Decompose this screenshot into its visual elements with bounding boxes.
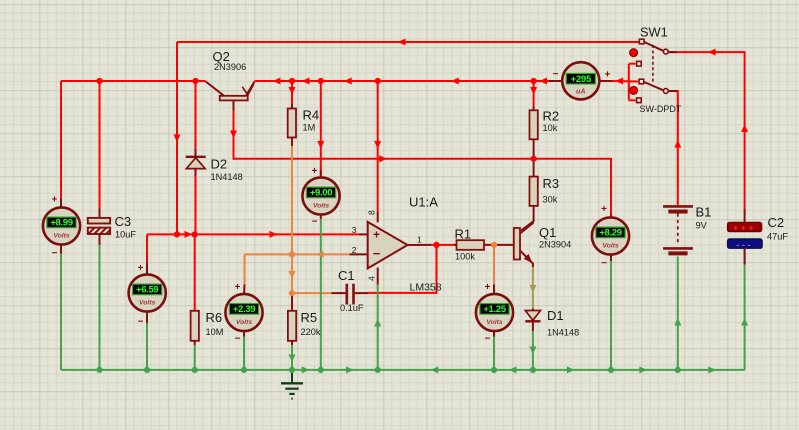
- svg-text:−: −: [373, 246, 381, 261]
- wire green battery B1 - to ground rail: [677, 257, 679, 370]
- svg-text:1M: 1M: [303, 123, 316, 133]
- junction ground rail / ground stub: [289, 367, 295, 373]
- resistor R1 100k: [454, 240, 514, 250]
- wire voltmeter +9.00 from rail: [320, 81, 322, 179]
- wire top net from node A to switch SW1 pole: [177, 41, 639, 43]
- voltmeter +2.39 leads and polarity: [235, 282, 245, 345]
- svg-text:1: 1: [417, 235, 422, 245]
- svg-text:+: +: [373, 228, 380, 242]
- wire 9V rail left segment: [61, 80, 206, 82]
- junction ground rail / voltmeter +1.25: [491, 367, 497, 373]
- wire green voltmeter +9.00 - to ground rail: [320, 219, 322, 370]
- voltmeter +1.25: [476, 294, 513, 331]
- wire pin3 net horizontal: [147, 233, 359, 235]
- voltmeter +9.00 leads and polarity: [312, 166, 321, 228]
- junction 9V rail / D2 branch: [192, 78, 198, 84]
- svg-text:2N3904: 2N3904: [539, 240, 571, 250]
- wire switch pole B down to battery B1 +: [669, 91, 678, 205]
- svg-text:Volts: Volts: [313, 202, 330, 209]
- wire ground rail: [61, 369, 745, 371]
- voltmeter +2.39: [225, 294, 262, 331]
- junction 9V rail / R4 branch: [289, 78, 295, 84]
- wire D2 cathode up to 9V rail: [195, 81, 197, 149]
- junction ground rail / R6: [192, 367, 198, 373]
- svg-text:C2: C2: [768, 215, 785, 230]
- wire green C3 - to ground rail: [99, 245, 101, 370]
- wire green voltmeter +8.99 - to ground rail: [60, 254, 62, 370]
- svg-text:0.1uF: 0.1uF: [340, 303, 364, 313]
- wire green D1 cathode to ground rail: [532, 331, 534, 370]
- svg-text:2N3906: 2N3906: [214, 62, 246, 72]
- svg-text:100k: 100k: [455, 251, 475, 261]
- ground symbol: [281, 370, 303, 399]
- svg-text:8: 8: [367, 210, 377, 215]
- svg-text:+: +: [601, 204, 607, 215]
- switch state indicator dot upper: [630, 49, 638, 57]
- svg-text:4: 4: [367, 276, 377, 281]
- wire D2 anode down to pin3 net: [195, 176, 197, 234]
- svg-text:+: +: [605, 70, 611, 81]
- svg-text:B1: B1: [696, 205, 712, 220]
- voltmeter +8.99 leads and polarity: [52, 195, 61, 260]
- svg-text:−: −: [235, 334, 241, 345]
- wire R4 top lead from rail: [291, 81, 293, 104]
- svg-text:C1: C1: [338, 268, 355, 283]
- junction ground rail / op-amp pin4: [375, 367, 381, 373]
- junction op-amp output / feedback: [433, 242, 439, 248]
- voltmeter +6.59: [129, 274, 166, 311]
- svg-text:10k: 10k: [543, 123, 558, 133]
- wire green R5 bottom to ground rail: [291, 345, 293, 370]
- wire green voltmeter +6.59 - to ground rail: [146, 323, 148, 370]
- ammeter +295 uA: [562, 62, 599, 99]
- voltmeter +8.99: [43, 207, 80, 244]
- transistor Q1 2N3904 NPN: [514, 223, 534, 268]
- svg-text:Q1: Q1: [539, 225, 556, 240]
- svg-text:−: −: [52, 248, 58, 259]
- junction ground rail / voltmeter +6.59: [144, 367, 150, 373]
- svg-text:−: −: [312, 217, 318, 228]
- wire vertical from top net down to pin3 net (node A): [176, 42, 178, 234]
- svg-text:SW1: SW1: [640, 25, 668, 40]
- wire green voltmeter +2.39 - to ground rail: [243, 337, 245, 370]
- svg-text:+1.25: +1.25: [483, 304, 506, 315]
- svg-text:10uF: 10uF: [115, 230, 136, 240]
- junction 9V rail / R2 branch: [531, 78, 537, 84]
- capacitor C2 47uF electrolytic: [728, 209, 763, 265]
- svg-text:+6.59: +6.59: [136, 285, 158, 296]
- junction ground rail / C3: [96, 367, 102, 373]
- wire left branch down to voltmeter +8.99: [60, 81, 62, 199]
- svg-text:+: +: [52, 195, 58, 206]
- junction ground rail / voltmeter +8.29: [608, 367, 614, 373]
- svg-text:uA: uA: [576, 89, 585, 96]
- junction 9V rail / C3 branch: [96, 78, 102, 84]
- wire pin3 net corner down to voltmeter +6.59: [146, 234, 148, 262]
- wire green op-amp pin4 to ground rail: [377, 285, 379, 370]
- junction R1 output / voltmeter +1.25 branch: [491, 242, 497, 248]
- svg-text:−: −: [138, 317, 144, 328]
- junction ground rail / voltmeter +9.00: [318, 367, 324, 373]
- resistor R6 10M: [191, 234, 199, 345]
- switch state indicator dot lower: [630, 87, 638, 95]
- op-amp U1:A LM358: [350, 212, 432, 285]
- svg-text:2: 2: [352, 245, 357, 255]
- svg-text:Volts: Volts: [139, 299, 156, 306]
- current arrow olive net: [529, 285, 536, 293]
- voltmeter +9.00: [302, 177, 339, 214]
- svg-text:R4: R4: [303, 108, 320, 123]
- wire orange R1 right down to voltmeter +1.25: [493, 245, 495, 285]
- svg-text:C3: C3: [115, 214, 132, 229]
- wire green C2 - to ground rail: [744, 249, 746, 370]
- svg-text:R2: R2: [543, 108, 560, 123]
- svg-text:9V: 9V: [696, 221, 708, 231]
- wire green voltmeter +1.25 - to ground rail: [493, 337, 495, 370]
- svg-text:D1: D1: [547, 308, 564, 323]
- svg-text:1N4148: 1N4148: [547, 328, 579, 338]
- junction pin3 net / R6-D2 branch: [192, 231, 198, 237]
- junction R2-R3 node / Q2 base net: [531, 156, 537, 162]
- junction ground rail / battery B1: [675, 367, 681, 373]
- svg-text:R5: R5: [301, 310, 318, 325]
- current arrows red nets: [398, 39, 406, 46]
- svg-text:+2.39: +2.39: [233, 304, 255, 315]
- switch SW1 SW-DPDT: [629, 39, 677, 102]
- svg-text:Volts: Volts: [236, 319, 253, 326]
- transistor Q2 2N3906 PNP: [206, 82, 255, 111]
- wire 9V rail right of Q2 emitter to ammeter: [255, 80, 550, 82]
- voltmeter +6.59 leads and polarity: [138, 263, 147, 328]
- diode D1 1N4148: [525, 309, 540, 332]
- svg-text:Volts: Volts: [486, 319, 503, 326]
- svg-text:+9.00: +9.00: [310, 188, 332, 199]
- battery B1 9V: [663, 206, 693, 253]
- svg-text:1N4148: 1N4148: [211, 172, 243, 182]
- wire Q2 base down and across to R2/R3 node: [234, 111, 612, 215]
- resistor R2 10k: [530, 106, 538, 159]
- wire olive Q1 emitter to D1: [532, 266, 534, 309]
- junction ground rail / voltmeter +2.39: [241, 367, 247, 373]
- wire switch pole A to right vertical down to C2: [669, 52, 745, 209]
- current arrows orange net: [316, 251, 324, 258]
- wire feedback from output down to C1 right plate: [368, 245, 437, 293]
- svg-text:R3: R3: [543, 176, 560, 191]
- svg-text:+8.29: +8.29: [599, 228, 621, 239]
- wire orange net to op-amp pin2: [245, 253, 350, 255]
- svg-text:+: +: [485, 282, 491, 293]
- svg-text:10M: 10M: [206, 327, 224, 337]
- wire orange to C1 left plate: [292, 292, 332, 294]
- svg-text:+: +: [312, 166, 318, 177]
- junction orange net / C1 wire: [289, 290, 295, 296]
- junction 9V rail / op-amp pin8 branch: [375, 78, 381, 84]
- wire green voltmeter +8.29 - to ground rail: [610, 261, 612, 370]
- resistor R4 1M: [288, 104, 296, 146]
- svg-text:+295: +295: [571, 74, 592, 85]
- resistor R3 30k: [521, 159, 538, 231]
- wire orange net R4 bottom vertical: [291, 146, 293, 293]
- wire green R6 bottom to ground rail: [194, 345, 196, 370]
- junction node A pin3 net / top wire: [174, 231, 180, 237]
- svg-text:R1: R1: [455, 226, 472, 241]
- capacitor C1 0.1uF: [332, 284, 369, 305]
- svg-text:30k: 30k: [543, 195, 558, 205]
- svg-text:+++: +++: [733, 222, 756, 232]
- svg-text:SW-DPDT: SW-DPDT: [640, 104, 682, 114]
- svg-text:47uF: 47uF: [767, 232, 788, 242]
- current arrows ground rail: [302, 366, 310, 373]
- voltmeter +8.29: [592, 217, 629, 254]
- junction 9V rail / voltmeter +9.00 branch: [318, 78, 324, 84]
- svg-text:3: 3: [352, 225, 357, 235]
- ammeter leads and polarity: [549, 69, 612, 81]
- wire R2 top from rail junction: [533, 81, 535, 106]
- wire op-amp output to R1: [431, 244, 454, 246]
- svg-text:+8.99: +8.99: [50, 218, 72, 229]
- svg-text:Volts: Volts: [53, 232, 70, 239]
- svg-text:LM358: LM358: [410, 282, 442, 294]
- svg-text:Volts: Volts: [602, 242, 619, 249]
- wire branch down to capacitor C3: [99, 81, 101, 209]
- voltmeter +1.25 leads and polarity: [485, 282, 494, 345]
- svg-text:+: +: [138, 263, 144, 274]
- svg-text:+: +: [235, 282, 241, 293]
- voltmeter +8.29 leads and polarity: [601, 204, 611, 269]
- svg-text:−: −: [601, 258, 607, 269]
- svg-text:D2: D2: [211, 157, 228, 172]
- svg-text:220k: 220k: [301, 327, 321, 337]
- capacitor C3 10uF polarized: [88, 209, 110, 246]
- svg-text:−: −: [553, 69, 559, 80]
- junction ground rail / D1: [530, 367, 536, 373]
- svg-text:U1:A: U1:A: [409, 195, 438, 210]
- wire op-amp pin8 power from rail: [377, 81, 379, 212]
- junction orange net / pin2 wire: [289, 251, 295, 257]
- resistor R5 220k: [288, 293, 296, 345]
- wire ammeter + to switch pole B: [612, 80, 638, 83]
- svg-text:R6: R6: [206, 310, 223, 325]
- wire orange corner down to voltmeter +2.39: [244, 254, 246, 284]
- svg-text:−: −: [485, 334, 491, 345]
- diode D2 1N4148: [186, 149, 206, 176]
